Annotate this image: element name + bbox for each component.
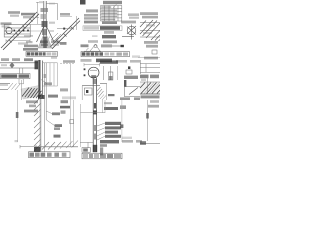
dim line above cap: [84, 63, 100, 66]
center text block rows: [26, 100, 38, 103]
hatch band light ticks: [144, 83, 160, 94]
baseline right: [140, 143, 160, 145]
post P1 plan (center vertical pair): [44, 1, 46, 38]
cap inner mark: [90, 69, 97, 71]
right frame verticals: [43, 63, 58, 86]
dim line right of stack: [121, 100, 123, 142]
vertical x106: [106, 84, 108, 100]
funnel core dark: [43, 37, 47, 48]
hatch small below: [100, 95, 106, 101]
anchor sketch texts: [81, 44, 89, 47]
text above dashed leader: [63, 60, 75, 63]
sign panel box: [1, 74, 31, 79]
small text left below caption: [24, 58, 33, 61]
bolt circle detail U: [122, 25, 136, 40]
dim line vertical left of post: [36, 2, 39, 24]
small marks above hatch band: [141, 79, 146, 81]
dark band (title strip): [100, 26, 120, 30]
small text in panel lower right: [24, 35, 33, 37]
beam box bottom line: [0, 67, 38, 69]
small blob left of stack: [120, 124, 123, 128]
table T1 grid: [101, 6, 123, 22]
small bracket box on post: [44, 74, 47, 78]
caption bar left sheet (title box): [26, 52, 58, 57]
small text right of plan base: [60, 42, 67, 45]
ground line under hatch band: [140, 93, 160, 95]
faint note text right mid: [132, 55, 140, 57]
label right of post: [44, 82, 52, 85]
table T1 cell text: [101, 6, 117, 20]
label stack row1: [105, 122, 121, 125]
bracket box below sign: [19, 79, 24, 84]
dark fill bottom of box: [109, 76, 112, 80]
bottom ground line: [41, 146, 78, 148]
vertical line left of foundation: [21, 80, 23, 100]
far right text rows: [140, 12, 158, 15]
extension line rect mid to post: [30, 30, 44, 32]
wall text dashes: [146, 24, 155, 26]
text row under table: [84, 21, 98, 24]
heading text above table T1: [103, 1, 122, 4]
text row under hatch band: [141, 95, 160, 98]
mid-right box detail: [124, 87, 140, 97]
text under panel: [18, 42, 28, 44]
bottom lines left of pole: [80, 142, 93, 148]
text below caption R dark: [96, 59, 112, 63]
bolt dots row: [14, 30, 29, 32]
right dense hatch band fill: [140, 82, 160, 94]
leader label LR3 row2: [54, 127, 60, 130]
leader labels at funnel right: [51, 40, 60, 43]
pole shaft double line: [93, 78, 96, 152]
hatch ticks right of post: [51, 33, 61, 41]
small box on x110: [108, 72, 113, 80]
pole center dashed: [93, 103, 96, 140]
small verticals near pole: [103, 100, 105, 113]
tiny note left of post top: [39, 1, 43, 3]
left text rows R-top: [86, 9, 98, 12]
top label row elevation b: [12, 58, 20, 61]
post companion line: [45, 63, 47, 152]
anchor sketch triangle: [84, 44, 101, 51]
hatched wall panel right: [140, 22, 160, 37]
extension line rect top to post: [30, 24, 44, 26]
leader label LR3 row1: [55, 124, 63, 127]
funnel transition at post base: [38, 36, 52, 48]
left dim vertical of pole: [80, 104, 82, 147]
GL line left of pole: [82, 85, 100, 87]
right ladder text row: [140, 75, 149, 79]
dim arrow across right panel: [57, 28, 74, 30]
dashed leader near beams: [60, 63, 75, 65]
sign panel dark text band: [1, 74, 17, 77]
caption table right bottom: [82, 153, 122, 159]
light rule right mid: [138, 56, 160, 58]
bolt dot in GL box: [86, 90, 88, 93]
beam line extension right of post: [43, 62, 58, 64]
dim line x17 with text blob: [17, 90, 19, 142]
label stack row2: [105, 126, 121, 129]
foundation hatch lines: [22, 88, 42, 99]
bottom ground hatch: [42, 141, 78, 150]
mid text row RB: [101, 44, 112, 47]
dim text col right b: [60, 106, 70, 109]
arrow leader right: [112, 45, 122, 47]
dim text col right c: [61, 110, 66, 113]
pier hatch column (left of buried post): [34, 98, 41, 152]
text rows above caption L: [26, 41, 33, 43]
text row under table right: [102, 21, 117, 24]
small square note: [152, 50, 157, 54]
bottom text rows right sheet: [100, 140, 119, 143]
hanger verticals: [20, 68, 23, 74]
diagonal at table corner: [113, 2, 119, 9]
post second edge: [41, 61, 43, 99]
arrow dot node: [63, 28, 65, 30]
label stack row4: [105, 135, 121, 138]
faint marks under stack: [122, 137, 132, 139]
dark bar under: [100, 147, 103, 155]
text blobs row mid: [124, 76, 138, 79]
top label row elevation: [1, 58, 9, 61]
small node dot mid: [128, 66, 130, 69]
leader lines from pole to stack: [97, 123, 105, 140]
post below ground: [40, 98, 42, 151]
right dim vertical lower: [147, 100, 149, 141]
far right text pair: [144, 41, 158, 44]
right diagonal bracket ticks: [57, 27, 74, 44]
beam end bracket dark: [35, 61, 39, 70]
dim extension line right of cap: [117, 66, 119, 80]
leader from funnel label a: [47, 37, 50, 41]
dark text row: [102, 35, 116, 38]
left small label rows: [1, 22, 12, 24]
beam box top line: [0, 62, 38, 64]
right edge vertical of plan: [76, 16, 78, 30]
top bracket arm: [46, 4, 58, 21]
right dense hatch band: [140, 83, 160, 94]
bottom box left of pole: [82, 148, 90, 153]
right texts lower: [150, 100, 159, 103]
gray text band left: [84, 26, 99, 29]
leader line to LR2: [46, 111, 52, 114]
ground hatch left: [8, 83, 20, 90]
right ladder text row b: [150, 75, 159, 79]
dim line under panel: [6, 39, 30, 42]
clamp box B1: [41, 8, 49, 12]
small box node x71: [70, 120, 74, 124]
ground line left: [0, 84, 10, 90]
sign panel dark text band b: [19, 74, 30, 77]
small text inside beam left: [1, 64, 7, 66]
dark bar right of pole: [104, 107, 118, 110]
dim text on right vertical: [146, 113, 149, 119]
base plate node: [38, 95, 45, 99]
far text row: [130, 60, 140, 63]
dim text blob on x17 line: [16, 112, 19, 118]
small text above anchor sketch: [88, 40, 98, 43]
pipe circle in panel section: [6, 27, 12, 33]
sign panel section rectangle: [4, 25, 30, 38]
label stack row3: [105, 131, 118, 134]
text under dark band: [104, 31, 114, 34]
blob left mid: [120, 105, 126, 109]
mid text row RA: [103, 40, 117, 43]
horizontal line y112: [80, 112, 105, 114]
small text right below caption: [51, 57, 57, 59]
light text row under labels: [62, 96, 76, 99]
tiny note right of post top: [49, 3, 55, 5]
right ladder lines: [140, 60, 160, 74]
sheet corner label box: [80, 0, 86, 5]
right diagonal sign panel (plan, double line): [50, 18, 80, 49]
dark blob on baseline: [140, 141, 146, 145]
tiny label right of clamp upper: [49, 22, 55, 24]
leader label LR1: [48, 95, 58, 98]
dim text col right a: [61, 100, 69, 103]
brace leg right from post: [46, 26, 54, 42]
text near top-right leader: [60, 13, 70, 16]
dim end mark bottom: [15, 140, 19, 142]
label text top-left cluster: [8, 11, 20, 14]
dash above bar: [104, 102, 112, 104]
left diagonal sign panel (plan, double line): [1, 12, 39, 50]
post clamp knot lower: [42, 29, 47, 35]
leader line to LR3: [47, 120, 55, 126]
pole base dark: [93, 145, 97, 152]
foundation hatched block: [21, 86, 41, 100]
right dim line tall: [71, 64, 74, 147]
upper-mid verticals: [104, 66, 111, 80]
tiny label right of clamp lower: [49, 30, 54, 32]
caption table left bottom: [29, 152, 71, 158]
text below caption R light: [81, 59, 92, 62]
left dots beside cap: [84, 68, 86, 70]
wall hatch diagonals: [140, 20, 160, 41]
leader from funnel label b: [56, 36, 59, 40]
text under box left: [120, 97, 130, 100]
faint dash below left band: [92, 35, 98, 37]
label far right of post: [60, 88, 68, 91]
leader label LR2: [52, 112, 60, 115]
dark dash mid: [108, 94, 115, 96]
leader dashed line to top right: [60, 16, 72, 18]
dark bar above box: [124, 80, 126, 87]
leader labels at funnel left: [40, 40, 48, 43]
brace leg left from post: [37, 26, 45, 42]
bottom dim line: [20, 145, 41, 148]
post clamp knot upper: [42, 21, 48, 27]
post base knot: [34, 147, 41, 152]
label text top-center cluster: [21, 13, 35, 16]
GL line right segment: [100, 83, 107, 85]
dark fill in bottom box: [83, 148, 88, 151]
pole neck clamp below cap: [93, 79, 97, 84]
right text block row A: [128, 13, 139, 16]
far right text under: [144, 57, 158, 60]
text far right bottom: [122, 140, 133, 143]
pole top cap circle: [88, 67, 99, 78]
main post elevation (thick): [38, 60, 40, 98]
arrow tip node: [121, 45, 124, 47]
caption bar right sheet: [81, 52, 130, 57]
text right of it: [116, 60, 127, 63]
dark header row right-mid: [100, 60, 118, 63]
hatch right of pole at GL: [97, 87, 104, 97]
caption box mid-right sheet: [83, 26, 122, 31]
text under box right: [134, 97, 140, 100]
label row right of it: [121, 21, 136, 24]
diagonal in box: [129, 88, 138, 95]
GL left vertical: [81, 86, 83, 100]
clamp diamond on beam: [10, 62, 15, 68]
clamp box B2: [41, 14, 47, 19]
small box mid: [126, 70, 132, 74]
hatch band borders: [140, 78, 160, 94]
left diagonal bracket ticks: [9, 19, 33, 43]
leader label LR4: [54, 135, 61, 138]
cap dark base arc: [91, 75, 96, 78]
GL box with bolt: [84, 88, 92, 95]
leader from post to label: [41, 80, 47, 84]
